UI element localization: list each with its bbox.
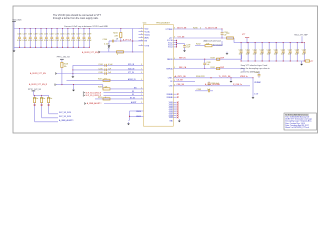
svg-text:A_DDR3_VTT_EN: A_DDR3_VTT_EN [30,72,46,75]
svg-text:VCC4: VCC4 [168,47,173,49]
net CKE_SE row [173,83,250,86]
svg-text:47k: 47k [105,86,108,88]
svg-text:Keep VTT island on layer 3 and: Keep VTT island on layer 3 and [241,64,267,67]
capacitor C253 termination [260,42,264,62]
IC U24 body outline [143,22,174,126]
svg-text:R241: R241 [113,33,118,35]
svg-text:10nF: 10nF [302,53,306,55]
resistor R242 22R address [195,41,222,47]
net REF_CA row [173,66,244,72]
capacitor C246 1uF mid [203,59,210,69]
svg-text:0.1uF: 0.1uF [22,40,26,42]
IC left pin stub upper 6 [139,44,150,47]
capacitor C256 termination [281,42,285,62]
svg-text:C197: C197 [76,34,80,36]
svg-text:A_SMB_ALERT#: A_SMB_ALERT# [87,102,103,105]
wire VTT row [173,36,234,42]
net REF_IN row [173,55,241,61]
net A_CNTL long row [173,75,253,78]
svg-text:0: 0 [117,54,118,56]
svg-text:GND5: GND5 [136,116,141,118]
svg-text:0.1uF: 0.1uF [28,40,32,42]
note: decoupling cap note [64,25,108,28]
svg-text:C240: C240 [103,39,108,41]
svg-text:0.1uF: 0.1uF [44,40,48,42]
ground below NC cluster [178,119,181,122]
IC left pin stub upper 3 [139,33,151,36]
svg-text:C253: C253 [260,49,264,51]
capacitor C247 1.5uF [255,72,261,78]
wire TL_BOOT_SE row [173,27,222,29]
power flag PPTC_1V2_S3 (lower) [28,89,41,93]
svg-text:VTT_SE: VTT_SE [178,36,186,38]
svg-text:C251: C251 [246,49,250,51]
svg-text:SLP_S3_SUS: SLP_S3_SUS [59,112,72,114]
svg-text:TL_BOOT_SE: TL_BOOT_SE [205,27,218,29]
wire cap row 3 [57,73,144,75]
svg-text:C192: C192 [49,34,53,36]
svg-text:C246: C246 [98,72,102,74]
svg-text:C193: C193 [55,34,59,36]
svg-text:R128: R128 [64,63,68,65]
svg-text:C187: C187 [23,34,27,36]
svg-text:Connect 0.1uF cap in between V: Connect 0.1uF cap in between VCCIO and G… [64,25,108,28]
resistor termination end [305,60,313,63]
svg-text:VSS2: VSS2 [169,104,173,106]
svg-text:C256: C256 [281,49,285,51]
svg-text:BOOT_SE: BOOT_SE [177,27,187,29]
svg-text:VSS8: VSS8 [169,115,173,117]
note: termination note line 2 [241,67,270,70]
wire VDD_SUS top rail [14,28,139,30]
svg-text:Termination: Termination [213,44,223,47]
ground stub above REF_IN [226,52,229,55]
title block [284,113,317,130]
capacitor C191 0.1uF (bypass) [44,28,48,48]
capacitor C249 1uF row [195,89,213,92]
svg-text:pins of the DDR3 parts: pins of the DDR3 parts [241,70,260,73]
note: termination note line 3 [241,70,260,73]
svg-text:VSS5: VSS5 [169,110,173,112]
resistor R238 22R on VTT row [226,33,233,39]
IC pin name CKE [169,84,175,87]
svg-text:VDD_IN: VDD_IN [128,69,135,71]
svg-text:VTTS: VTTS [145,45,150,47]
ground under VTT sense row [108,41,111,47]
svg-text:0.1uF: 0.1uF [17,40,21,42]
capacitor C245 1uF [98,69,142,72]
capacitor C254 termination [267,42,271,62]
svg-text:0.1uF: 0.1uF [39,40,43,42]
svg-text:0.1uF: 0.1uF [82,40,86,42]
ground under left vertical [72,75,75,78]
IC pin name CK [170,80,175,83]
svg-text:C188: C188 [28,34,32,36]
svg-text:10k: 10k [64,66,67,68]
IC pin name VTTREF [166,28,176,31]
svg-text:0.1uF: 0.1uF [65,40,69,42]
power flag VDD_SUS [12,19,22,28]
capacitor C240 0.1uF (series) [103,39,119,46]
svg-text:0.1uF: 0.1uF [49,40,53,42]
capacitor C196 0.1uF (bypass) [71,28,75,48]
IC ground pins bottom-left [127,111,143,125]
wire SLP_S5_SUS net [42,116,72,118]
net label SLP_S3_DDR3_R [83,91,143,94]
ground VDIMM bottom [252,96,255,99]
svg-text:VSS4: VSS4 [169,108,173,110]
capacitor C244 0.1uF [98,64,142,67]
wire resistor row 4 [67,79,144,81]
svg-text:Address/Command: Address/Command [204,40,221,43]
wire row 5 to resistor R249 [56,84,103,89]
wire vertical bundle x132.7 [132,29,133,53]
svg-text:VSS3: VSS3 [169,106,173,108]
svg-text:C250: C250 [239,49,243,51]
svg-text:C249: C249 [197,89,202,91]
note: VCCIO connection note line 1 [53,14,102,17]
svg-text:C255: C255 [274,49,278,51]
IC pin name REFIN [167,58,175,61]
capacitor C198 0.1uF (bypass) [82,28,86,48]
wire A_DDR3_VTT_EN_R row [100,51,143,53]
svg-text:R239: R239 [211,58,215,60]
capacitor C239 1uF cluster [177,44,191,50]
svg-text:1.8: 1.8 [116,39,119,41]
svg-text:C252: C252 [253,49,257,51]
svg-text:C191: C191 [44,34,48,36]
svg-text:R250: R250 [98,97,102,99]
svg-text:C190: C190 [39,34,43,36]
svg-text:1uF: 1uF [207,64,210,66]
svg-text:R249: R249 [98,87,102,89]
resistor R128 10k [61,62,68,85]
capacitor C195 0.1uF (bypass) [65,28,69,48]
svg-text:R240 22R: R240 22R [196,76,205,78]
note: VCCIO connection note line 2 [53,17,99,20]
svg-text:RT_IN: RT_IN [130,98,136,100]
net label A_DDR3_VTT_EN_R (row 5) [29,83,56,86]
net label A_DDR3_VTT_EN_R [82,51,101,54]
capacitor C259 termination [302,42,306,62]
svg-text:0.1uF: 0.1uF [60,40,64,42]
net label A_SMB_ALERT# row [84,101,143,105]
page border frame [13,6,318,133]
svg-text:S5: S5 [132,94,134,96]
wire resistor cluster rail [33,93,48,96]
svg-text:10nF: 10nF [288,53,292,55]
svg-text:C244: C244 [98,64,102,66]
svg-text:VREF 1u: VREF 1u [240,76,248,78]
svg-text:VCCA: VCCA [145,30,151,33]
capacitor C192 0.1uF (bypass) [49,28,53,48]
svg-text:0: 0 [200,27,201,29]
svg-text:ADDR_IN: ADDR_IN [128,78,136,81]
IC no-connect pin cluster [166,93,178,123]
svg-text:GND4: GND4 [136,111,141,113]
wire row 8 resistor [95,97,144,100]
no-connect stub on EN row [108,47,110,52]
svg-text:C196: C196 [71,34,75,36]
wire VDIMM vertical [253,78,261,96]
svg-text:10nF: 10nF [260,53,264,55]
capacitor C190 0.1uF (bypass) [39,28,43,48]
svg-text:10uF: 10uF [186,47,190,49]
svg-text:0.1uF: 0.1uF [76,40,80,42]
IC left pin stub upper 2 [139,30,151,33]
capacitor C197 0.1uF (bypass) [76,28,80,48]
svg-text:VTTREF: VTTREF [166,29,174,31]
svg-text:PPTC_1V2_S3: PPTC_1V2_S3 [57,57,70,59]
resistor R131 pull-up [40,95,46,117]
svg-text:0.1uF: 0.1uF [55,40,59,42]
svg-text:10nF: 10nF [281,53,285,55]
capacitor C189 0.1uF (bypass) [33,28,37,48]
power flag PPTC_1V2_S3 (upper) [57,57,70,62]
capacitor C237 1uF at boot [221,28,228,38]
svg-text:R242: R242 [196,44,201,46]
svg-text:U24: U24 [143,22,146,24]
svg-text:10nF: 10nF [239,53,243,55]
capacitor C187 0.1uF (bypass) [22,28,26,48]
svg-text:C257: C257 [288,49,292,51]
svg-text:VTT: VTT [310,61,313,63]
svg-text:C189: C189 [33,34,37,36]
wire bypass bank bottom rail [14,46,89,48]
svg-text:NVCC_VTT_REF: NVCC_VTT_REF [294,35,307,37]
svg-text:C258: C258 [295,49,299,51]
svg-text:CNTL: CNTL [168,78,173,80]
resistor R241 22R (series from rail) [113,28,122,41]
svg-text:VTT_IN: VTT_IN [128,72,135,74]
svg-text:A_VTT_R: A_VTT_R [123,38,132,41]
ground termination bank [300,61,303,66]
IC right pin cluster wires [167,40,177,49]
svg-text:VSS7: VSS7 [169,113,173,115]
svg-text:C195: C195 [66,34,70,36]
power flag VTT (red) [242,34,249,43]
svg-text:A_DDR3_VTT_EN_R: A_DDR3_VTT_EN_R [29,83,48,86]
capacitor C252 termination [253,42,257,62]
capacitor C199 0.1uF (bypass) [87,28,91,48]
note: termination note line 1 [241,64,267,67]
svg-text:C248 1uF: C248 1uF [211,83,220,85]
capacitor C258 termination [295,42,299,62]
net label A_DDR3_VTT_EN (row 3) [30,72,57,75]
IC pin name VTT [169,37,175,40]
svg-text:VSS9: VSS9 [169,117,173,119]
junction dot R241/row [120,40,121,41]
svg-text:A_CNTL_SE: A_CNTL_SE [175,75,187,78]
capacitor C186 0.1uF (bypass) [17,28,21,48]
svg-text:10nF: 10nF [253,53,257,55]
svg-text:0: 0 [105,97,106,99]
svg-text:C254: C254 [267,49,271,51]
capacitor C193 0.1uF (bypass) [55,28,59,48]
svg-text:TPS51206RUKT: TPS51206RUKT [156,22,171,24]
IC pin name CNTL [168,76,175,79]
wire left vertical junction x72.9 [72,65,73,75]
svg-text:C199: C199 [87,34,91,36]
svg-text:10nF: 10nF [295,53,299,55]
capacitor C248 1uF [208,82,220,86]
svg-text:R242: R242 [211,67,215,69]
wire cap row 2 [73,69,144,71]
svg-text:VSS1: VSS1 [169,102,173,104]
capacitor C246 1uF [98,72,142,75]
svg-text:CKE_SE: CKE_SE [177,84,185,86]
IC left pin stub upper 1 [139,27,149,30]
capacitor C250 termination [239,42,243,62]
svg-text:C245: C245 [98,69,102,71]
ground under A_CNTL row [230,78,233,83]
svg-text:VDD_SUS: VDD_SUS [13,19,23,21]
ground tap row 5 [72,85,75,92]
svg-text:place the decoupling caps clos: place the decoupling caps close to [241,67,270,70]
svg-text:Sheet 5 of 14 DDR3_VTT.s: Sheet 5 of 14 DDR3_VTT.sch [285,126,309,129]
svg-text:AVIN: AVIN [145,36,150,39]
svg-text:0.1uF: 0.1uF [87,40,91,42]
note: address termination heading [204,40,223,47]
svg-text:10nF: 10nF [274,53,278,55]
wire SMB_ALERT net [35,119,75,122]
svg-text:through a ferrite from the mai: through a ferrite from the main supply r… [53,17,99,20]
svg-text:REF_IN: REF_IN [179,58,186,60]
capacitor C255 termination [274,42,278,62]
ground for right cluster [183,49,186,52]
svg-text:R_CKE 1u: R_CKE 1u [233,84,242,86]
svg-text:SLP_S5_SUS: SLP_S5_SUS [59,116,72,118]
svg-text:VDIMM: VDIMM [254,82,261,84]
resistor R249 47k row [98,86,144,90]
svg-text:S3: S3 [132,91,134,93]
svg-text:R236: R236 [193,27,198,29]
svg-text:C186: C186 [17,34,21,36]
resistor R132 pull-up [47,95,53,113]
wire termination bottom rail [241,60,305,62]
svg-text:0.1uF: 0.1uF [71,40,75,42]
svg-text:C259: C259 [302,49,306,51]
svg-text:A_DDR3_VTT_EN_R: A_DDR3_VTT_EN_R [82,51,101,54]
net CK_SE row [173,80,195,82]
wire termination top rail [234,42,303,44]
capacitor C257 termination [288,42,292,62]
svg-text:REF_CA: REF_CA [179,66,187,69]
svg-text:10nF: 10nF [246,53,250,55]
resistor R247 47k row 4 [98,78,142,81]
svg-text:VDDQ: VDDQ [145,34,151,36]
net label SLP_S5_DDR3_R [83,94,143,97]
svg-text:C198: C198 [82,34,86,36]
IC pin name REFCA [166,67,175,70]
capacitor C188 0.1uF (bypass) [28,28,32,48]
resistor R130 pull-up [33,95,39,121]
svg-text:ALERT: ALERT [131,101,136,104]
svg-text:10nF: 10nF [267,53,271,55]
power flag NVCC_VTT_REF [294,35,307,44]
svg-text:SLP_S3_DDR3_R: SLP_S3_DDR3_R [86,92,102,94]
resistor R129 0R on EN row [117,51,124,56]
net label A_VTT_R [123,38,132,41]
IC left pin stub upper 5 [139,39,148,42]
svg-text:CK_SE: CK_SE [177,80,184,82]
svg-text:TL_CNTL_SE: TL_CNTL_SE [219,76,232,78]
svg-text:REFCA: REFCA [166,67,173,70]
wire VTT sense row [109,40,144,42]
svg-text:SPD_IN: SPD_IN [128,64,135,66]
svg-text:R247: R247 [98,79,102,81]
svg-text:REFIN: REFIN [167,59,173,61]
capacitor C251 termination [246,42,250,62]
svg-text:47k: 47k [104,78,107,80]
svg-text:VSS6: VSS6 [169,111,173,113]
ground at bypass bank left [13,29,16,53]
wire SLP_S3_SUS net [49,112,72,114]
wire cap row 1 [73,64,144,66]
svg-text:C194: C194 [60,34,64,36]
svg-text:A_SMB_ALERT#: A_SMB_ALERT# [59,119,75,122]
svg-text:0.1uF: 0.1uF [33,40,37,42]
capacitor C194 0.1uF (bypass) [60,28,64,48]
IC left pin stub upper 4 [139,36,150,39]
